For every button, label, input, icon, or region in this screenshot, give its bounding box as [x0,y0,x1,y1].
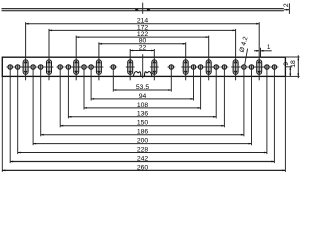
leader line for hole diameter [245,49,248,66]
rail bottom edge extension right [285,75,299,77]
gap dimension arrows [261,50,264,52]
svg-text:108: 108 [137,102,149,109]
gap dimension line left part [254,50,259,52]
thickness dimension 2 [283,3,290,14]
right center hook cutout [145,72,153,77]
dimension 18 (full height) [290,55,299,78]
hole H9 with centerline extension [109,65,117,92]
svg-text:53.5: 53.5 [136,84,149,91]
left center hook cutout [133,72,141,77]
dimension 53.5 (bottom) [113,84,171,91]
hole H11 with centerline extension [190,65,198,101]
slot S4 with centerline extension [95,42,104,80]
hole H8 with centerline extension [87,65,95,101]
dimension 9 (half height) [283,62,291,77]
svg-text:260: 260 [137,164,149,171]
hole H14 with centerline extension [221,65,229,128]
gap dimension second extension line [260,48,262,57]
side view strip body [2,9,284,11]
slot S7 with centerline extension [181,42,190,80]
dimension 94 (bottom) [91,93,193,100]
dimension 186 (bottom) [41,129,244,136]
left rail edge extension line [1,76,3,171]
dimension 22 (top) [130,44,154,51]
hole H12 with centerline extension [197,65,205,110]
dimension 150 (bottom) [60,120,224,127]
dimension 80 (top) [99,38,186,45]
dimension 228 (bottom) [18,146,267,153]
dimension 214 (top) [26,18,260,25]
hole H10 with centerline extension [167,65,175,92]
hole H15 with centerline extension [240,65,248,137]
dimension 200 (bottom) [33,138,251,145]
hole H3 with centerline extension [29,65,37,146]
hole H6 with centerline extension [65,65,73,119]
hole H1 with centerline extension [6,65,14,164]
svg-text:18: 18 [290,60,297,68]
hole H17 with centerline extension [263,65,271,155]
svg-text:200: 200 [137,138,149,145]
slot S1 with centerline extension [21,22,30,80]
slot S5 with centerline extension [126,49,135,80]
dimension 122 (top) [76,31,209,38]
svg-text:2: 2 [283,3,290,7]
slot S10 with centerline extension [255,22,264,80]
hole H4 with centerline extension [37,65,45,137]
svg-text:94: 94 [139,93,147,100]
slot S2 with centerline extension [45,29,54,80]
svg-text:228: 228 [137,146,149,153]
slot S3 with centerline extension [72,36,81,81]
side view strip bottom face [2,10,284,12]
hole H16 with centerline extension [248,65,256,146]
rail outline [2,57,285,76]
slot S6 with centerline extension [150,49,159,80]
center vertical line of rail [142,54,144,78]
slot S8 with centerline extension [204,36,213,81]
right rail edge extension line [284,76,286,171]
slot S9 with centerline extension [231,29,240,80]
hole H2 with centerline extension [14,65,22,155]
svg-text:9: 9 [283,62,290,66]
rail top edge extension right [285,56,299,58]
dimension 108 (bottom) [84,102,201,109]
gap dimension line right part [261,50,272,52]
hole H5 with centerline extension [56,65,64,128]
svg-text:150: 150 [137,120,149,127]
rail center extension right [285,66,292,68]
svg-text:242: 242 [137,155,149,162]
hole H13 with centerline extension [212,65,220,119]
dimension 242 (bottom) [10,155,274,162]
centerline mark on strip [135,3,150,14]
svg-text:186: 186 [137,129,149,136]
side view strip top face [2,8,284,10]
svg-text:136: 136 [137,111,149,118]
dimension 260 (bottom) [2,164,285,171]
svg-text:22: 22 [139,44,147,51]
dimension 172 (top) [49,24,236,31]
dimension 136 (bottom) [68,111,216,118]
hole H18 with centerline extension [271,65,279,164]
hole H7 with centerline extension [80,65,88,110]
